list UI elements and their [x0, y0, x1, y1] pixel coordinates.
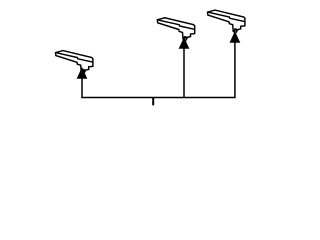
arrow 1 head — [77, 68, 86, 78]
key 2 (middle) — [157, 18, 194, 40]
arrow 2 stem — [183, 48, 185, 97]
arrow 3 head — [230, 32, 239, 42]
key 3 (right) — [208, 10, 245, 32]
horizontal bus line — [81, 97, 236, 99]
arrow 1 stem — [81, 78, 83, 97]
arrow 2 head — [179, 38, 188, 48]
tick down from bus — [152, 98, 154, 106]
key 1 (left) — [56, 51, 93, 73]
arrow 3 stem — [234, 42, 236, 98]
